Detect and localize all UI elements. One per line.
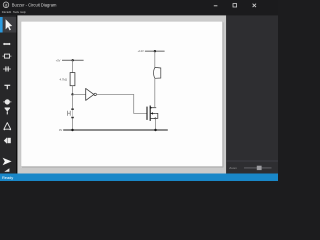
maximize button [233,4,237,7]
wire node A to inverter input [73,93,86,95]
tool icon bulb [5,99,10,104]
wire source to ground rail [155,118,157,130]
tool icon run arrow [3,158,12,165]
transistor Q1 source stub [150,117,155,119]
panel separator [226,160,278,162]
inverter output bubble [94,93,96,95]
tool icon capacitor [3,68,11,70]
wire resistor to node A [72,86,74,95]
svg-text:Edit: Edit [7,10,12,14]
transistor Q1 body stub with arrow [150,112,155,114]
svg-text:Buzzer - Circuit Diagram: Buzzer - Circuit Diagram [12,2,57,7]
zoom slider track [244,167,272,169]
svg-text:d: d [5,2,7,7]
value label 1u [68,111,71,116]
pin dot source [155,118,157,120]
status bar [0,174,278,182]
svg-text:Zoom: Zoom [229,166,237,170]
wire stub between plates [72,110,74,117]
transistor Q1 channel bar [149,106,151,121]
tool icon speaker [4,137,7,143]
wire buzzer to drain [154,78,156,107]
wire inverter output to gate jog [96,94,146,113]
svg-text:Help: Help [20,10,26,14]
node A junction [71,93,73,95]
minimize button [214,5,218,7]
power +12V rail [145,50,165,52]
wire node A to capacitor [72,95,74,109]
menu bar [2,10,26,14]
svg-text:+5V: +5V [56,58,61,62]
tool icon cursor [6,19,13,30]
node capacitor-ground junction [71,129,73,131]
transistor Q1 drain stub [150,107,156,109]
node at +5V rail [72,59,74,61]
tool icon wire [3,43,11,45]
left toolbar background [0,15,16,173]
title bar background [0,0,278,15]
pin dot drain [150,107,152,109]
transistor Q1 gate bar [146,107,148,120]
buzzer BZ1 [154,67,161,78]
tool icon op-amp [4,123,11,130]
power +5V rail [62,59,84,61]
tool icon resistor [2,55,11,57]
svg-text:4.7kΩ: 4.7kΩ [59,77,67,81]
wire +12V to buzzer [154,51,156,67]
capacitor C1 bottom plate [71,117,74,119]
svg-text:Ready: Ready [2,175,13,180]
app icon [3,2,9,8]
wire capacitor to ground rail [72,118,74,130]
node at +12V rail [154,50,156,52]
wire +5V to resistor [72,60,74,72]
canvas white page [21,21,223,166]
right panel [226,15,278,173]
zoom slider thumb [257,166,262,170]
tool icon partial [4,168,9,172]
tool icon ground [4,84,10,86]
ground rail 0V [63,129,168,131]
selected tool cell [0,17,16,33]
capacitor C1 top plate [71,108,74,110]
svg-text:0V: 0V [59,128,62,132]
toolbar right border [16,15,17,173]
transistor Q1 body-source hook [155,113,158,118]
workspace background [17,15,226,173]
close button [253,4,256,7]
op-amp U1 inverter triangle [86,88,94,100]
svg-text:Tools: Tools [13,10,20,14]
canvas page shadow [22,22,224,167]
node source-ground junction [154,129,156,131]
tool icon diode [5,107,10,109]
svg-text:+12V: +12V [138,49,144,53]
resistor R1 [70,73,75,86]
